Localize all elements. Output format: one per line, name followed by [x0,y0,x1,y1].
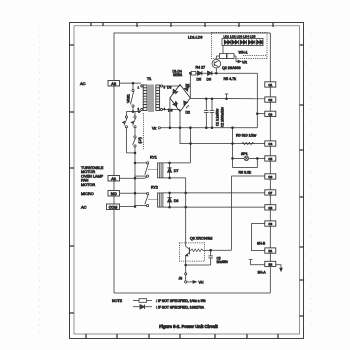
relay RY2 contact [135,193,149,207]
wire to terminal 3 [257,113,265,115]
svg-text:SP1: SP1 [241,152,248,156]
svg-text:(LH): (LH) [138,137,142,143]
node junction on A2 wire [132,82,134,84]
svg-text:Q3 XRC343M: Q3 XRC343M [190,237,212,241]
perforation dot columns (scan artifact) [39,28,312,332]
svg-text:C1 0.1u/50v: C1 0.1u/50v [216,108,220,126]
svg-text:C2 1000u/16v: C2 1000u/16v [221,107,225,127]
capacitor C1 [204,98,220,129]
svg-text:RY1: RY1 [150,156,157,160]
left terminal A1 [108,176,120,182]
diode D7 [163,162,191,179]
wire LED box to WH-1 [222,46,224,57]
connector WH-1 [216,51,266,59]
svg-text:AC: AC [81,205,87,210]
speaker SP1 [232,152,265,161]
svg-text:C2: C2 [268,98,272,102]
VR arrow [236,56,247,65]
relay RY2 coil [149,186,163,208]
wire SH-B loop terminal C9 to B1 [252,224,265,251]
LED LD5 [257,40,263,44]
wire cap rail down to SP1 row [232,128,234,159]
svg-text:C7: C7 [268,191,272,195]
terminal 2 [265,97,276,102]
svg-text:R5 4.7k: R5 4.7k [224,77,237,81]
svg-text:R4 27: R4 27 [196,66,206,70]
svg-text:10u/35v: 10u/35v [217,260,229,264]
test point stub [225,94,229,100]
svg-text:NO: NO [111,191,117,196]
bridge plus output vertical [189,73,191,98]
svg-text:COM: COM [109,205,117,209]
wire COM [120,206,136,208]
transistor Q3 [179,237,212,273]
svg-text:C8: C8 [268,206,272,210]
svg-text:T1: T1 [147,77,151,81]
svg-text:C4: C4 [268,142,272,146]
door switch 2 lower [133,128,136,153]
terminal 3 [265,111,276,116]
svg-text:Vk: Vk [152,126,156,130]
terminal 1 [265,82,276,87]
svg-text:WH-1: WH-1 [239,51,248,55]
mechanical dashed link [143,113,145,150]
Q3 base resistor [189,249,211,252]
LED LD3 [240,40,246,44]
svg-text:J3: J3 [179,277,183,281]
wire lower primary [126,111,141,113]
svg-text:11EB1: 11EB1 [173,73,183,77]
relay RY1 coil [149,156,163,178]
svg-text:B2: B2 [268,263,272,267]
left terminal A2 [108,81,120,87]
svg-text:Figure 5-2. Power Unit Circuit: Figure 5-2. Power Unit Circuit [159,324,218,329]
J3 terminal [179,273,187,283]
wire C5 to emitter [186,264,211,266]
LED LD2 [232,40,238,44]
svg-text:1: 1 [138,86,140,89]
wire RY2 coil top to terminal C7 [163,192,265,194]
cap top rail [190,97,264,99]
svg-text:A2: A2 [111,81,117,86]
terminal 9 [265,221,276,226]
NOTE legend [112,299,205,310]
transistor Q2 [212,56,241,74]
bridge bottom corner vertical to R0 rail [180,112,191,144]
SP1 bypass loop [233,158,258,167]
right terminal column boxes [265,82,276,267]
svg-text:D8: D8 [174,199,179,203]
svg-text:R0 910 1/2w: R0 910 1/2w [236,134,257,138]
svg-text:C3: C3 [268,112,272,116]
bridge minus output vertical [169,98,171,128]
switch join wire [126,152,135,154]
svg-text:C6: C6 [268,175,272,179]
rail right vertical [256,73,258,128]
svg-text:D5: D5 [197,78,202,82]
svg-text:MICRO: MICRO [81,192,94,196]
svg-text:C5: C5 [268,157,272,161]
frame tick marks [70,23,304,339]
svg-text:3: 3 [164,86,166,89]
svg-text:VRS1: VRS1 [127,94,131,103]
wire RY1 coil bottom down to Q3 collector [185,178,187,243]
wire Vk feed down to RY1 coil [189,128,191,163]
diode D5 [197,71,202,82]
left terminal COM [107,204,120,210]
svg-text:B1: B1 [268,249,272,253]
LED LD4 [248,40,254,44]
Vk node [152,126,160,130]
svg-text:LD1-LD6: LD1-LD6 [188,36,202,40]
svg-text:Q2 2SA933: Q2 2SA933 [222,66,241,70]
wire A1 [120,177,145,179]
VH arrow [187,281,204,285]
vertical terminal6 to Q3 base [230,176,232,250]
capacitor C5 [208,250,228,265]
svg-text:LD1 LD2 LD3 LD4 LD5: LD1 LD2 LD3 LD4 LD5 [224,35,256,39]
door switch 2 upper [131,112,136,128]
terminal 6 [265,174,276,179]
svg-text:C9: C9 [268,222,272,226]
svg-text:R6 3.3k: R6 3.3k [239,170,252,174]
wire Q3 junction to RY2 vertical [211,249,232,251]
svg-text:MOTOR: MOTOR [81,183,95,187]
page frame inner [74,26,300,334]
relay RY1 contact [134,162,149,177]
svg-text:D6: D6 [207,78,212,82]
terminal 7 [265,190,276,195]
svg-text:VH: VH [199,281,204,285]
svg-text:VR: VR [242,61,247,65]
diode D8 [167,192,178,208]
svg-text:SH-B: SH-B [257,242,266,246]
svg-text:: IF NOT SPECIFIED, 1/4w ± 5%: : IF NOT SPECIFIED, 1/4w ± 5% [156,299,205,303]
wire secondary to bridge top [163,85,180,87]
R0 wire [191,134,265,145]
wire secondary to bridge bottom [163,109,180,111]
varistor VRS1 [127,83,135,112]
Vk rail [160,127,257,129]
svg-text:C1: C1 [268,83,272,87]
DC plus rail [190,72,257,74]
wire NO [120,192,136,194]
svg-text:AC: AC [80,81,86,86]
svg-text:RY2: RY2 [151,186,158,190]
terminal B1 [265,248,276,253]
door switch 1 [123,112,128,153]
svg-text:D7: D7 [174,169,179,173]
resistor R4 [191,66,205,76]
transformer T1 [141,77,163,112]
left load labels [81,166,104,187]
capacitor C2 [210,98,225,129]
svg-text:D2: D2 [186,111,190,115]
terminal 8 [265,205,276,210]
terminal 4 [265,141,276,146]
left terminal NO [108,191,120,197]
svg-text:NOTE: NOTE [112,299,123,303]
svg-text:D1: D1 [186,84,190,88]
svg-text:SH-A: SH-A [258,271,267,275]
switch chain vertical [134,153,136,207]
LED LD1 [224,40,230,44]
resistor R6 wire to terminal C6 [231,170,264,176]
terminal B2 [265,261,276,266]
terminal 5 [265,156,276,161]
wire RY2 coil bottom to terminal C8 [163,206,265,208]
svg-text:A1: A1 [111,176,117,181]
terminal B2 wire SH-A [249,260,282,275]
svg-text:: IF NOT SPECIFIED, 1SS270A: : IF NOT SPECIFIED, 1SS270A [156,305,205,309]
dashed box LD1-LD6 [212,33,268,59]
page frame outer [70,23,304,339]
diode D6 [207,71,212,82]
bridge rectifier D1-D4 [167,70,190,115]
wire A2 to transformer [120,82,142,84]
circuit box outline / AC feed lines [114,33,270,293]
LED box [222,35,263,46]
